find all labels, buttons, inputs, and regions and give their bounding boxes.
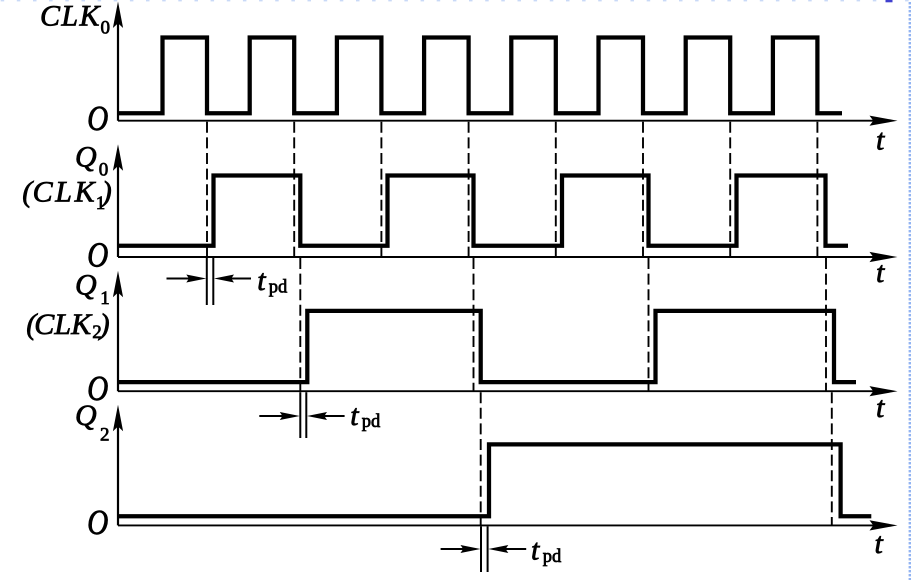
svg-text:t: t bbox=[876, 124, 885, 157]
wire dashed Q1 falling edge 1 bbox=[480, 392, 482, 525]
svg-text:CLK: CLK bbox=[33, 176, 97, 209]
wire dashed CLK0 falling edge 8 bbox=[816, 122, 818, 257]
node Q0 y-axis bbox=[113, 144, 123, 257]
label Q2 bbox=[75, 399, 110, 446]
wire dashed CLK0 falling edge 6 bbox=[642, 122, 644, 257]
wire dashed CLK0 falling edge 1 bbox=[206, 122, 208, 257]
wire dashed Q0 falling edge 2 bbox=[473, 258, 475, 391]
label (CLK2) bbox=[26, 308, 109, 343]
node CLK0 y-axis bbox=[113, 2, 123, 121]
svg-text:1: 1 bbox=[100, 288, 110, 309]
svg-text:0: 0 bbox=[101, 18, 111, 39]
wire Q2 waveform bbox=[119, 444, 871, 516]
wire dashed Q1 falling edge 2 bbox=[831, 392, 833, 525]
svg-text:t: t bbox=[875, 527, 884, 560]
node tpd arrows panel 2 bbox=[167, 275, 252, 283]
svg-text:pd: pd bbox=[543, 547, 562, 567]
wire dashed CLK0 falling edge 2 bbox=[293, 122, 295, 257]
svg-text:CLK: CLK bbox=[34, 308, 93, 341]
node tpd marker lines panel 3 bbox=[300, 392, 306, 438]
node Q0 t-axis bbox=[118, 252, 898, 262]
wire Q0 waveform bbox=[119, 176, 848, 246]
svg-text:pd: pd bbox=[362, 412, 381, 432]
node tpd arrows panel 3 bbox=[259, 412, 344, 420]
node tpd marker lines panel 4 bbox=[481, 526, 488, 572]
svg-text:t: t bbox=[531, 534, 540, 567]
svg-text:O: O bbox=[87, 98, 108, 137]
svg-text:Q: Q bbox=[75, 268, 97, 301]
label Q0 bbox=[75, 140, 108, 180]
label tpd panel 2 bbox=[257, 264, 288, 297]
label CLK0 bbox=[40, 0, 110, 39]
svg-text:t: t bbox=[257, 264, 266, 297]
wire dashed CLK0 falling edge 4 bbox=[468, 122, 470, 257]
label tpd panel 3 bbox=[350, 399, 381, 432]
svg-text:t: t bbox=[876, 391, 885, 424]
wire dashed CLK0 falling edge 3 bbox=[380, 122, 382, 257]
label Q1 bbox=[75, 268, 110, 309]
svg-text:): ) bbox=[100, 176, 112, 209]
svg-text:pd: pd bbox=[269, 277, 288, 297]
node tpd arrows panel 4 bbox=[441, 545, 527, 553]
node Q1 t-axis bbox=[118, 386, 898, 396]
label tpd panel 4 bbox=[531, 534, 562, 567]
svg-text:t: t bbox=[876, 256, 885, 289]
node Q1 y-axis bbox=[113, 271, 123, 391]
label (CLK1) bbox=[22, 176, 112, 214]
wire dashed Q0 falling edge 1 bbox=[299, 258, 301, 391]
wire Q1 waveform bbox=[119, 311, 856, 382]
wire CLK0 waveform bbox=[119, 38, 842, 114]
wire dashed Q0 falling edge 4 bbox=[825, 258, 827, 391]
svg-text:O: O bbox=[87, 503, 108, 542]
svg-text:CLK: CLK bbox=[40, 0, 101, 32]
svg-text:): ) bbox=[98, 308, 110, 341]
wire dashed CLK0 falling edge 7 bbox=[729, 122, 731, 257]
node tpd marker lines panel 2 bbox=[207, 258, 214, 305]
svg-text:t: t bbox=[350, 399, 359, 432]
wire dashed CLK0 falling edge 5 bbox=[555, 122, 557, 257]
svg-text:Q: Q bbox=[75, 140, 97, 173]
svg-text:Q: Q bbox=[75, 399, 97, 432]
svg-text:2: 2 bbox=[100, 424, 110, 445]
wire dashed Q0 falling edge 3 bbox=[648, 258, 650, 391]
node Q2 t-axis bbox=[118, 520, 898, 530]
page border top dotted (decorative) bbox=[1, 0, 909, 1]
node Q2 y-axis bbox=[113, 405, 123, 526]
node CLK0 t-axis bbox=[118, 116, 898, 126]
